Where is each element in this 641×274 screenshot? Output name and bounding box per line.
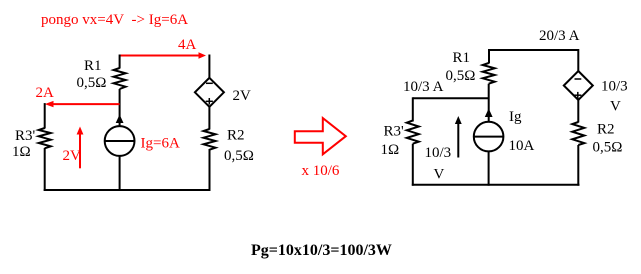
svg-text:10A: 10A bbox=[509, 138, 535, 154]
wire: R1 bottom to current source (right) bbox=[488, 84, 490, 123]
wire: diamond bottom to R2 (right) bbox=[577, 99, 579, 123]
wire: R1 bottom down to current source bbox=[119, 89, 121, 127]
dependent source diamond (left) bbox=[195, 78, 224, 107]
voltage arrow 10/3 V (black, up) bbox=[457, 123, 459, 158]
wire: R2 bottom (right) bbox=[577, 145, 579, 186]
svg-text:V: V bbox=[434, 167, 445, 183]
arrowhead 2A left bbox=[45, 101, 54, 107]
plus sign in diamond bbox=[206, 100, 213, 102]
svg-text:10/3: 10/3 bbox=[601, 79, 628, 95]
svg-text:0,5Ω: 0,5Ω bbox=[446, 68, 476, 84]
wire: 2A red mid wire bbox=[51, 103, 120, 105]
svg-text:R2: R2 bbox=[597, 122, 615, 138]
svg-text:2A: 2A bbox=[36, 85, 55, 101]
transform block arrow (red) bbox=[295, 118, 346, 154]
current source Ig (left): chord bbox=[105, 140, 135, 142]
svg-text:Ig: Ig bbox=[509, 109, 522, 125]
arrowhead 4A right bbox=[199, 52, 207, 59]
wire: mid rail (right circuit) bbox=[413, 97, 489, 99]
current source Ig (right): chord bbox=[474, 136, 504, 138]
svg-text:20/3 A: 20/3 A bbox=[539, 28, 580, 44]
minus sign in diamond (right) bbox=[575, 78, 582, 80]
plus sign in diamond (right) bbox=[574, 94, 581, 96]
svg-text:1Ω: 1Ω bbox=[381, 142, 400, 158]
wire: top corner to R1 (right) bbox=[488, 49, 490, 64]
svg-text:R1: R1 bbox=[84, 58, 102, 74]
svg-text:2V: 2V bbox=[63, 148, 82, 164]
wire: top-right corner to diamond bbox=[208, 55, 210, 79]
resistor R2 (right) bbox=[572, 122, 584, 145]
svg-text:x 10/6: x 10/6 bbox=[302, 163, 340, 179]
resistor R1 (left) bbox=[114, 68, 126, 89]
wire: R2 bottom bbox=[209, 149, 211, 191]
resistor R3' (right) bbox=[407, 121, 419, 144]
svg-text:4A: 4A bbox=[178, 37, 197, 53]
voltage arrow 2V (red, up) bbox=[79, 132, 81, 168]
svg-text:R2: R2 bbox=[227, 128, 245, 144]
wire: left rail bottom bbox=[44, 148, 46, 191]
wire: left circuit top (4A current arrow, red) bbox=[120, 55, 199, 57]
current source Ig (left): circle bbox=[105, 126, 135, 156]
svg-text:R3': R3' bbox=[384, 124, 405, 140]
svg-text:10/3: 10/3 bbox=[425, 145, 452, 161]
current source Ig (left): arrowhead bbox=[116, 115, 124, 124]
dependent source diamond (right) bbox=[564, 71, 593, 100]
minus sign in diamond bbox=[206, 82, 213, 84]
wire: left rail (right circuit) top bbox=[412, 97, 414, 121]
svg-text:1Ω: 1Ω bbox=[12, 144, 31, 160]
svg-text:0,5Ω: 0,5Ω bbox=[593, 140, 623, 156]
wire: top corner to diamond (right) bbox=[577, 49, 579, 72]
svg-text:R3': R3' bbox=[15, 128, 36, 144]
svg-text:2V: 2V bbox=[233, 88, 252, 104]
wire: left rail (right circuit) bottom bbox=[412, 144, 414, 186]
svg-text:R1: R1 bbox=[453, 50, 471, 66]
wire: right circuit top rail bbox=[489, 49, 579, 51]
svg-text:10/3 A: 10/3 A bbox=[403, 79, 444, 95]
svg-text:0,5Ω: 0,5Ω bbox=[224, 148, 254, 164]
resistor R2 (left) bbox=[204, 129, 216, 150]
current source Ig (right): circle bbox=[474, 122, 504, 152]
wire: bottom rail (left circuit) bbox=[44, 189, 211, 191]
wire: diamond bottom to R2 bbox=[208, 107, 210, 130]
wire: top-left corner to R1 top bbox=[119, 55, 121, 69]
wire: left rail top bbox=[44, 103, 46, 128]
svg-text:Ig=6A: Ig=6A bbox=[141, 136, 180, 152]
svg-text:Pg=10x10/3=100/3W: Pg=10x10/3=100/3W bbox=[251, 242, 392, 259]
wire: bottom rail (right circuit) bbox=[412, 184, 580, 186]
wire: source bottom (right) bbox=[488, 151, 490, 186]
svg-text:pongo vx=4V -> Ig=6A: pongo vx=4V -> Ig=6A bbox=[41, 12, 188, 28]
resistor R1 (right) bbox=[483, 63, 495, 84]
wire: source bottom bbox=[119, 155, 121, 191]
svg-text:V: V bbox=[610, 99, 621, 115]
svg-text:0,5Ω: 0,5Ω bbox=[77, 75, 107, 91]
resistor R3' (left) bbox=[39, 128, 51, 148]
current source Ig (right): arrowhead bbox=[485, 109, 493, 118]
